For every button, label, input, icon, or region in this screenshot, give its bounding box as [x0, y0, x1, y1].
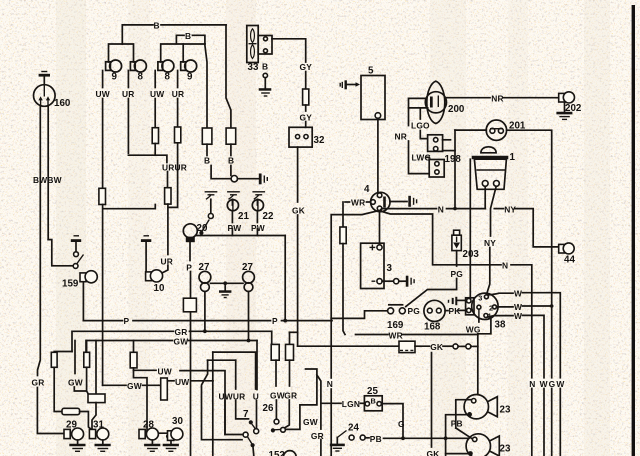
fuse box B on GW drop: [86, 341, 88, 353]
wire GR second drop from staircase: [317, 375, 321, 429]
headlamp lamp 8 group2: [158, 60, 174, 72]
fuse box 198 upper: [428, 135, 443, 152]
lighting switch 32 box: [289, 127, 312, 147]
flasher unit 33 body: [247, 26, 258, 63]
wire GW bus corner down (U wire feed): [256, 341, 258, 390]
wire Pi link upper (column loom): [213, 352, 256, 389]
svg-text:23: 23: [500, 444, 511, 455]
wire U to switch 7 upper throw: [256, 401, 258, 429]
wire below fuse to T split: [133, 368, 135, 370]
wire switch 26 output staircase: [285, 369, 317, 429]
wire minus link: [382, 280, 394, 282]
ground below 33: [259, 88, 272, 96]
wire GR second drop below label: [320, 440, 322, 456]
relay 201: [486, 120, 506, 140]
svg-text:UWUR: UWUR: [219, 392, 246, 402]
svg-text:NR: NR: [395, 132, 408, 142]
svg-text:1: 1: [510, 152, 516, 163]
wire headlamp group1 T-bar: [109, 44, 134, 62]
wire down to lamp 28 and 30 feed: [134, 370, 168, 433]
wire GW jog drop to connector box 2: [290, 331, 298, 333]
contact bar symbol over lamp 21: [227, 192, 240, 200]
wire horn 1 lower terminal link: [446, 415, 470, 456]
svg-text:GR: GR: [284, 390, 297, 400]
wire diagonal from 4 bottom to x331 drop: [331, 211, 378, 456]
horn 23 lower: [466, 434, 499, 456]
svg-text:26: 26: [263, 403, 274, 414]
terminal circle bottom of 5: [375, 113, 381, 119]
ignition switch 169: [388, 305, 406, 314]
switch 7 upper arm: [252, 424, 256, 429]
wire LGO to fuse box 198 upper: [420, 131, 427, 139]
wire GW bus drop at 133.5: [133, 341, 135, 353]
ground above lamp unit 160: [39, 72, 50, 85]
junction dot on GR bus: [203, 329, 207, 333]
wire from 1 left flange down (WG feed): [469, 159, 471, 300]
lamp 31: [89, 428, 108, 440]
wire B bus 2 (headlamp group 2 feed): [176, 35, 184, 44]
fuse on WR riser: [340, 227, 346, 244]
svg-text:W: W: [514, 289, 522, 299]
wire from 4 bottom down to battery: [379, 211, 381, 245]
ground below 27 link: [219, 290, 231, 297]
switch for 159 (contact circles and arm): [73, 252, 83, 269]
wire GY to fuse: [305, 72, 307, 90]
turn lamp 27 left: [199, 271, 211, 291]
wire LWG dash: [426, 156, 429, 158]
svg-text:P: P: [272, 316, 278, 326]
wire GK long drop to GK line: [297, 215, 299, 346]
wire 27 right drop to GW bus: [248, 292, 250, 341]
svg-text:27: 27: [242, 262, 253, 273]
ground below lamp 31: [95, 440, 111, 451]
wire UW drop below label to switch 7: [224, 401, 226, 435]
wire PG to ignition switch 169: [406, 279, 457, 307]
wire BW left from 160: [38, 106, 41, 376]
svg-text:7: 7: [243, 409, 249, 420]
sideways ground left of 5: [340, 80, 360, 89]
wire UW from lamp 9 group1: [102, 71, 104, 88]
svg-text:UW: UW: [96, 89, 110, 99]
wire NY continues to connector 38 pin 3: [487, 248, 490, 295]
svg-text:B: B: [154, 21, 160, 31]
wire UW g2 below fuse: [154, 144, 156, 156]
svg-text:30: 30: [172, 416, 183, 427]
svg-text:G: G: [549, 379, 556, 389]
ground below 202: [556, 103, 572, 119]
wire bar joining UR1 and UW2: [128, 155, 167, 162]
svg-text:GW: GW: [174, 336, 189, 346]
wire WR riser below fuse: [343, 244, 345, 335]
svg-text:W: W: [540, 379, 548, 389]
ground below lamp 28: [144, 440, 160, 451]
wire BW right from 160: [47, 106, 49, 240]
component 159 (beam warning light): [80, 271, 97, 283]
wire Pi link lower: [208, 359, 236, 361]
wire UR from lamp 9 group2: [177, 71, 179, 88]
switch 7 lower arm: [247, 437, 252, 444]
wire 201 output right: [507, 130, 552, 456]
hook into lamp 28: [144, 431, 147, 434]
wire GW label drop: [74, 341, 76, 374]
svg-text:BWBW: BWBW: [33, 175, 62, 185]
connector box on GR drop: [271, 344, 279, 360]
wire PB bus: [384, 437, 470, 439]
svg-text:21: 21: [238, 211, 249, 222]
wire GK line to label: [415, 345, 430, 347]
page border line right: [632, 5, 635, 456]
wire UR drop below label to switch 7 upper pivot: [236, 401, 249, 419]
switch 24 contact circles: [349, 435, 365, 440]
svg-text:159: 159: [62, 279, 79, 290]
wire N branch lower: [511, 265, 532, 456]
svg-text:27: 27: [199, 262, 210, 273]
wire NY branch line: [494, 208, 503, 210]
switch 20 arm: [202, 220, 210, 232]
wire PW bus from 20 base: [196, 235, 286, 237]
wire pill to lamp 31: [80, 412, 92, 430]
svg-text:3: 3: [478, 294, 482, 303]
svg-text:GW: GW: [127, 381, 142, 391]
wire WG from 38 rotor down: [478, 319, 480, 322]
alternator 200 outline: [425, 81, 446, 123]
horn unit 202: [559, 92, 575, 103]
svg-text:10: 10: [154, 283, 165, 294]
fuse on UR trunk: [165, 188, 171, 204]
wire pin1 down to WG path: [478, 318, 491, 334]
svg-text:PK: PK: [449, 306, 461, 316]
connector box at end of GW link: [161, 378, 168, 400]
switch 20 contact circle: [208, 214, 213, 219]
pill connector: [62, 408, 80, 414]
ground above lamp 10: [141, 236, 151, 271]
wire below switch 7: [252, 447, 255, 456]
svg-text:24: 24: [348, 423, 359, 434]
junction dot at N line: [453, 207, 457, 211]
svg-text:URUR: URUR: [162, 163, 187, 173]
wire UR g2 to fuse: [177, 99, 179, 128]
wire UR continues down: [127, 99, 129, 154]
svg-text:33: 33: [248, 62, 259, 73]
bullet connector pair 2 on GK: [466, 344, 478, 349]
bullet connector pair 1 on GK: [453, 344, 465, 349]
wire B drop from bus2 into hatched connector 1: [205, 44, 207, 128]
wire below box1 to switch 26: [275, 360, 277, 386]
contact bar symbol over switch 20: [205, 192, 218, 200]
junction circle of B wires: [231, 176, 237, 182]
svg-text:UW: UW: [150, 89, 164, 99]
svg-text:GW: GW: [270, 390, 285, 400]
junction dot PB at horn drop: [444, 436, 448, 440]
horn 23 upper: [464, 395, 497, 419]
svg-text:GR: GR: [32, 378, 45, 388]
component 10 (warning light): [146, 270, 163, 282]
wire W row 1: [488, 293, 513, 295]
fuse box on 133.5 drop: [130, 352, 137, 368]
wire below hatched connector to lamp 31: [92, 403, 96, 429]
wire UW line 1: [134, 369, 157, 371]
svg-text:GY: GY: [300, 62, 313, 72]
wire UW from lamp 8 group2: [154, 71, 156, 88]
wire drop 207.6 to switch 7: [202, 360, 243, 440]
horn unit 44: [559, 243, 575, 254]
junction dot G/PB: [401, 436, 405, 440]
wire GY into box 32: [305, 122, 307, 128]
wire NR column to 198 lower box: [409, 141, 430, 174]
junction dot 27 link: [223, 281, 227, 285]
junction dot W2 on G drop: [550, 304, 554, 308]
wire UR into component 10: [161, 266, 168, 274]
ignition unit 1 body: [474, 159, 506, 189]
hatched connector above lamp 31: [88, 394, 105, 403]
wire B drop from bus1 into hatched connector 2: [226, 25, 231, 128]
wire GW below label joins fuse B output into hatched connector: [74, 387, 88, 395]
wire below hatched connector 2: [230, 144, 232, 155]
label N on wire 331: [326, 379, 336, 388]
wire P below connector to bottom edge: [190, 312, 192, 456]
wire PB from switch 24: [365, 437, 369, 439]
wire UW continues down to fuse: [102, 99, 104, 189]
wire P bus: [83, 320, 122, 322]
svg-text:9: 9: [187, 72, 193, 83]
svg-text:31: 31: [93, 420, 104, 431]
ignition unit 1 cap: [472, 147, 509, 159]
wire 27 left drop to GR bus: [204, 292, 206, 332]
wire below lamp 21: [231, 211, 233, 223]
svg-text:UR: UR: [122, 89, 135, 99]
wire B terminal below 33: [263, 73, 267, 88]
fuse on UW g2: [152, 128, 158, 144]
wire P bus jog into 169: [331, 311, 387, 319]
lamp 30: [166, 428, 183, 440]
wire stub from UW1 fuse bottom joining trunk: [103, 205, 155, 209]
wire GR to switch 26 right contact: [284, 400, 290, 429]
wire between 27s: [211, 282, 244, 284]
wire PK from 168 to connector 38: [445, 310, 448, 312]
switch 7 upper contact circle: [254, 429, 259, 434]
wire UW line 2 from connector box: [167, 380, 174, 382]
svg-text:WR: WR: [389, 330, 403, 340]
in-line fuse 203: [452, 230, 461, 250]
wire GK line after label: [443, 345, 453, 347]
wire from contact to switch 20: [210, 199, 212, 213]
wire below hatched connector 1: [206, 144, 208, 155]
wire GR bus left drop: [54, 351, 72, 354]
wire GY from 33 connector: [272, 39, 306, 62]
wire P from 20 base down: [189, 242, 191, 260]
battery plus terminal: [377, 245, 382, 250]
relay box 5: [361, 76, 385, 120]
svg-text:25: 25: [367, 386, 378, 397]
ground below lamp 30: [163, 441, 179, 452]
wire G from 25 down: [381, 404, 403, 439]
svg-text:PB: PB: [370, 434, 382, 444]
wire UW g2 to fuse: [154, 99, 156, 128]
svg-text:GK: GK: [427, 449, 440, 456]
ground below lamp 29: [69, 440, 85, 451]
wire from 1 pin2 down NY: [491, 186, 497, 236]
battery 3 box: [361, 243, 384, 288]
wire GY below fuse: [305, 105, 307, 111]
svg-text:UR: UR: [161, 257, 174, 267]
svg-text:PW: PW: [228, 223, 242, 233]
svg-text:N: N: [529, 379, 535, 389]
wire UW1 below fuse (long drop): [102, 205, 104, 386]
svg-text:UW: UW: [175, 377, 189, 387]
svg-text:29: 29: [66, 420, 77, 431]
wire drop UR 235.7: [235, 360, 237, 389]
wire diagonal from 4 bottom to x432 drop: [380, 211, 502, 265]
switch 7 upper pivot dot: [249, 420, 253, 424]
component 152 circle (partial at edge): [283, 451, 296, 456]
svg-text:38: 38: [495, 320, 506, 331]
svg-text:B: B: [228, 156, 234, 166]
sideways ground right of 4: [390, 196, 417, 207]
ground above switch 159: [71, 236, 81, 252]
connector block at 38: [466, 298, 474, 315]
wire N from 4 bottom: [380, 209, 437, 211]
faint scan streak bands: [56, 0, 86, 456]
wire GK line left part: [298, 345, 399, 347]
wire W row 3: [488, 316, 513, 317]
turn lamp 27 right: [243, 271, 255, 291]
wire W row 2: [497, 306, 514, 308]
wire UR g2 below fuse down and merge left: [169, 143, 178, 208]
connector box on second drop: [286, 344, 294, 360]
svg-text:P: P: [186, 263, 192, 273]
svg-text:198: 198: [445, 154, 462, 165]
sideways ground at battery: [406, 276, 414, 287]
lamp 22 (panel lamp): [252, 199, 263, 210]
wire UW1 corner into GW link line: [103, 384, 126, 386]
connector box on P wire: [183, 298, 196, 312]
wire horn 1 feed: [456, 400, 471, 428]
svg-text:PB: PB: [451, 419, 463, 429]
svg-text:200: 200: [448, 104, 465, 115]
connector block right of 33: [258, 36, 272, 55]
wire to battery ground: [399, 280, 406, 282]
lamp unit 160 (flasher repeater): [34, 85, 56, 107]
wire GR drop to lamp 29: [37, 388, 63, 434]
svg-text:20: 20: [197, 223, 208, 234]
wire 200 left stubs: [409, 98, 427, 125]
lamp 21 (panel lamp): [227, 199, 238, 210]
svg-text:B: B: [185, 31, 191, 41]
distributor 4 body: [371, 192, 390, 211]
lamp 29: [64, 428, 84, 440]
wire PB diagonal to horn 2: [456, 428, 473, 439]
battery plus sign: [370, 245, 376, 251]
wire from 159 down to P bus: [82, 282, 84, 321]
wire WR dash to corner: [367, 201, 371, 203]
svg-text:PW: PW: [251, 223, 265, 233]
wire B bus 1 (headlamp group 1 feed): [122, 25, 153, 44]
svg-text:GW: GW: [68, 378, 83, 388]
svg-text:GR: GR: [311, 431, 324, 441]
svg-text:WR: WR: [351, 198, 365, 208]
svg-text:44: 44: [564, 255, 575, 266]
lamp 28: [139, 428, 158, 440]
headlamp lamp 8 group1: [130, 60, 146, 72]
capacitor at 38: [449, 297, 467, 305]
contact bar symbol over lamp 22: [252, 192, 265, 200]
headlamp lamp 9 group1: [106, 60, 122, 72]
wire from 5 down to distributor 4: [377, 118, 379, 193]
wire below box2 to switch 26: [289, 360, 291, 386]
battery minus terminal: [377, 279, 382, 284]
wire WR bus to WG junction: [356, 334, 389, 336]
svg-text:4: 4: [364, 184, 370, 195]
wire GR drop to connector box 1: [271, 331, 273, 344]
svg-text:28: 28: [143, 420, 154, 431]
svg-text:GW: GW: [303, 417, 318, 427]
wire UR trunk below fuse: [167, 204, 169, 254]
fuse box 198 lower: [429, 160, 444, 178]
svg-text:5: 5: [368, 66, 374, 77]
wire UR from lamp 8 group1: [127, 71, 129, 88]
wire B1 to junction: [211, 166, 232, 179]
svg-text:3: 3: [387, 263, 393, 274]
wire GR bus: [72, 331, 174, 351]
wire WR riser down: [342, 202, 344, 227]
wire headlamp group2 T-bar: [161, 44, 205, 62]
wire junction to ground: [238, 178, 259, 180]
sideways ground right of junction: [259, 174, 268, 185]
svg-text:B: B: [262, 62, 268, 72]
wire LGN line: [321, 402, 341, 404]
wire long drop at 213: [212, 352, 214, 456]
wire P long drop to bottom: [190, 272, 192, 299]
svg-text:PG: PG: [451, 269, 464, 279]
wire 198 upper box to 201: [443, 139, 451, 141]
hatched connector on B wire 1: [202, 128, 212, 144]
svg-text:UR: UR: [172, 89, 185, 99]
hatched connector on B wire 2: [226, 128, 236, 144]
svg-text:B: B: [371, 397, 376, 406]
svg-text:UW: UW: [158, 367, 172, 377]
wiper motor 38: [472, 293, 498, 319]
wire to contact of switch 26: [275, 400, 277, 419]
wire B2 to junction: [230, 166, 232, 176]
svg-text:NY: NY: [504, 204, 516, 214]
wire below fuse A to pill connector: [54, 367, 62, 411]
wire WG drop to horn 1: [477, 334, 479, 395]
wire below lamp 22: [256, 211, 258, 223]
fuse on GY wire: [303, 89, 309, 105]
svg-text:LGN: LGN: [342, 399, 360, 409]
flasher unit 25: [364, 396, 382, 411]
wire GW bus: [86, 341, 173, 353]
svg-text:N: N: [438, 204, 444, 214]
svg-text:GR: GR: [175, 327, 188, 337]
svg-text:LGO: LGO: [411, 121, 430, 131]
wire 201 feed line: [455, 129, 486, 131]
wire junction to ground: [224, 283, 226, 290]
svg-text:168: 168: [424, 322, 441, 333]
wire horn 2 lower terminal link: [446, 453, 468, 455]
wire second GW drop into hatched connector top: [95, 341, 97, 395]
svg-text:GK: GK: [292, 206, 305, 216]
svg-text:P: P: [124, 316, 130, 326]
wire lamp 22 drop to PW bus: [256, 229, 258, 236]
fuse on UW1 wire: [99, 188, 106, 204]
junction dot on GW bus: [247, 339, 251, 343]
headlamp lamp 9 group2: [181, 60, 197, 72]
wire from 1 pin1 to N line: [484, 186, 486, 208]
svg-text:GK: GK: [430, 342, 443, 352]
svg-text:8: 8: [165, 72, 171, 83]
switch 24 arm: [337, 431, 346, 438]
